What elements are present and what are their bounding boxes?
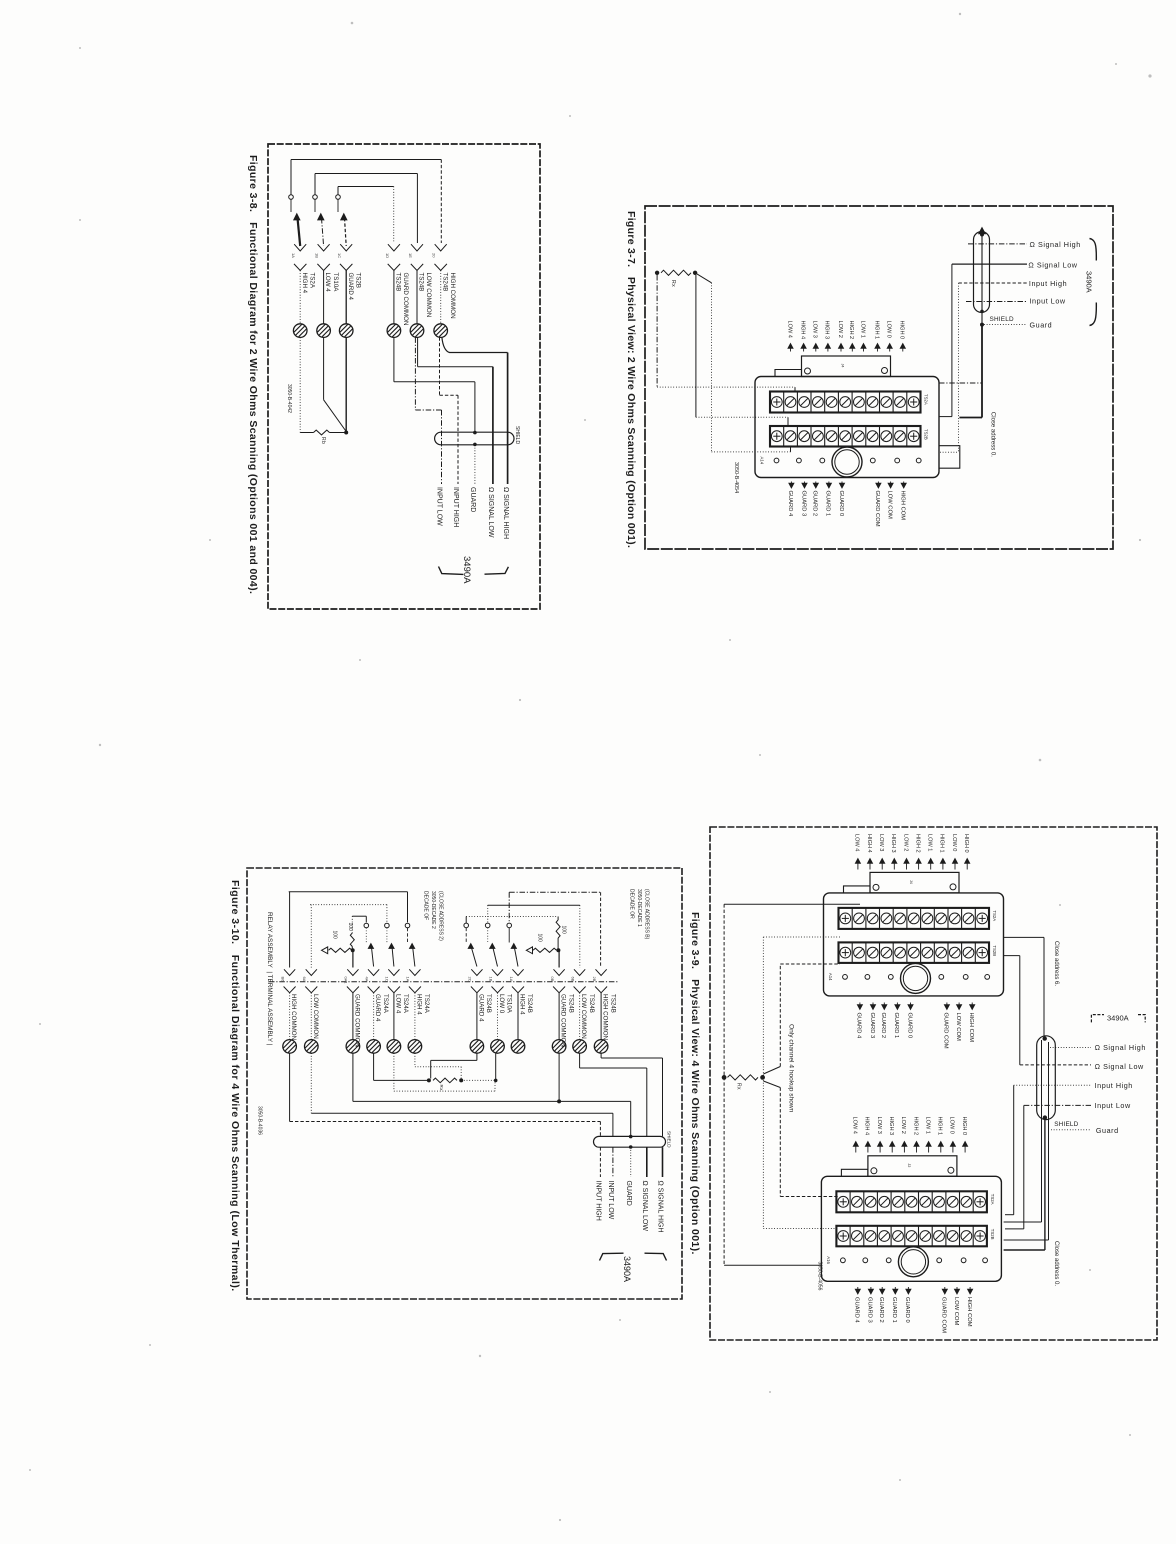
right rail A <box>509 891 600 893</box>
svg-text:(CLOSE ADDRESS B): (CLOSE ADDRESS B) <box>644 889 650 940</box>
wires below oval <box>599 1147 601 1177</box>
svg-text:3050-B-4036: 3050-B-4036 <box>257 1106 263 1135</box>
svg-text:Ω Signal High: Ω Signal High <box>1030 240 1081 249</box>
frame Figure 3-10 <box>247 868 682 1299</box>
svg-text:R x: R x <box>670 280 676 287</box>
cable shield <box>1037 1036 1056 1120</box>
svg-text:1E: 1E <box>408 253 413 258</box>
svg-text:HIGH 4: HIGH 4 <box>866 834 872 853</box>
wire A high common loop <box>723 904 725 1265</box>
svg-text:GUARD COM: GUARD COM <box>943 1013 949 1049</box>
svg-text:GUARD 3: GUARD 3 <box>869 1013 875 1039</box>
relay card A14 <box>755 377 939 478</box>
svg-text:GUARD COMMON: GUARD COMMON <box>402 273 409 326</box>
svg-text:HIGH 4: HIGH 4 <box>416 994 423 1015</box>
wire input low <box>1023 1105 1025 1229</box>
svg-text:TS24B: TS24B <box>485 994 492 1013</box>
frame Figure 3-7 <box>645 206 1113 549</box>
svg-text:HIGH 3: HIGH 3 <box>824 321 830 340</box>
svg-text:HIGH 3: HIGH 3 <box>888 1117 894 1136</box>
wire omega signal low <box>1004 955 1020 957</box>
svg-text:GUARD COMMON: GUARD COMMON <box>560 994 567 1047</box>
svg-text:RELAY ASSEMBLY | TERMINAL ASS: RELAY ASSEMBLY | TERMINAL ASSEMBLY | <box>266 912 273 1046</box>
svg-text:HIGH 3: HIGH 3 <box>890 834 896 853</box>
svg-text:LOW 1: LOW 1 <box>859 321 865 338</box>
svg-text:LOW 1: LOW 1 <box>924 1117 930 1134</box>
svg-text:100: 100 <box>537 934 543 943</box>
scan specks <box>351 22 354 25</box>
svg-text:Close address 6.: Close address 6. <box>1053 941 1059 986</box>
svg-text:SHIELD: SHIELD <box>667 1131 672 1148</box>
wire input low <box>966 301 1027 303</box>
relay blades right group <box>465 928 467 943</box>
svg-text:HIGH COMMON: HIGH COMMON <box>290 994 297 1040</box>
svg-text:HIGH COM: HIGH COM <box>900 491 906 521</box>
svg-text:3490A: 3490A <box>622 1256 632 1282</box>
svg-text:Input Low: Input Low <box>1030 297 1066 306</box>
resistor Rx <box>655 271 659 275</box>
svg-text:TS2B: TS2B <box>990 1229 995 1240</box>
svg-text:TS2B: TS2B <box>992 945 997 956</box>
guard labels below card <box>789 483 794 488</box>
svg-text:GUARD 1: GUARD 1 <box>891 1297 897 1323</box>
3490A brace <box>1090 239 1097 261</box>
wire guard <box>1043 1115 1047 1119</box>
svg-text:HIGH 0: HIGH 0 <box>899 321 905 340</box>
svg-text:J2: J2 <box>907 1163 911 1167</box>
svg-text:GUARD 0: GUARD 0 <box>906 1013 912 1039</box>
svg-text:TS2B: TS2B <box>924 429 929 440</box>
resistor 100 right vertical <box>557 917 559 921</box>
svg-text:SHIELD: SHIELD <box>514 426 520 444</box>
svg-text:GUARD 4: GUARD 4 <box>787 491 793 518</box>
svg-text:Figure 3-9. Physical View: 4: Figure 3-9. Physical View: 4 Wire Ohms S… <box>689 912 701 1255</box>
svg-text:HIGH 4: HIGH 4 <box>519 994 526 1015</box>
svg-text:HIGH 0: HIGH 0 <box>961 1117 967 1136</box>
svg-text:GUARD 2: GUARD 2 <box>878 1297 884 1323</box>
svg-text:GUARD COM: GUARD COM <box>941 1297 947 1333</box>
svg-text:Ω SIGNAL LOW: Ω SIGNAL LOW <box>641 1181 648 1232</box>
svg-text:LOW COM: LOW COM <box>955 1013 961 1042</box>
svg-text:GUARD 4: GUARD 4 <box>478 994 485 1022</box>
svg-text:LOW COMMON: LOW COMMON <box>580 994 587 1039</box>
svg-text:GUARD 4: GUARD 4 <box>347 273 354 301</box>
svg-text:Guard: Guard <box>1030 321 1053 330</box>
svg-text:1C: 1C <box>385 977 390 982</box>
wire Rx left to strip1 <box>656 275 658 387</box>
wire col5 jog <box>393 1053 395 1091</box>
svg-text:LOW 2: LOW 2 <box>837 321 843 338</box>
wire col1 to input high <box>289 1053 291 1121</box>
3490A bracket <box>1091 1015 1104 1023</box>
svg-text:LOW COM: LOW COM <box>886 491 892 520</box>
svg-text:LOW 4: LOW 4 <box>324 273 331 293</box>
relay card A16 <box>821 1176 1001 1281</box>
contact circles right group <box>464 923 469 928</box>
svg-text:TS24B: TS24B <box>441 273 448 292</box>
svg-text:6B: 6B <box>570 977 575 982</box>
svg-text:LOW 0: LOW 0 <box>886 321 892 338</box>
svg-text:A14: A14 <box>828 973 833 981</box>
svg-text:GUARD 4: GUARD 4 <box>374 994 381 1022</box>
svg-text:TS2A: TS2A <box>990 1194 995 1205</box>
svg-text:1B: 1B <box>315 253 320 258</box>
svg-text:3050-B-4054: 3050-B-4054 <box>733 462 739 493</box>
svg-text:100: 100 <box>332 931 338 940</box>
wire omega signal high <box>1004 936 1044 938</box>
svg-text:4A: 4A <box>364 977 369 982</box>
cable shield oval <box>594 1136 666 1147</box>
wire Rx right to strip2 <box>695 275 697 417</box>
svg-text:3490A: 3490A <box>1107 1014 1129 1023</box>
wire col3 to junction <box>345 337 347 432</box>
resistor Rx <box>722 1075 727 1080</box>
wire low common to input low <box>414 337 416 410</box>
svg-text:TS24B: TS24B <box>418 273 425 292</box>
wires chevron to screw <box>299 271 301 324</box>
svg-text:GUARD 4: GUARD 4 <box>856 1013 862 1040</box>
cable shield oval <box>435 432 514 445</box>
svg-text:SHIELD: SHIELD <box>990 316 1014 323</box>
svg-text:100: 100 <box>347 923 353 932</box>
resistor Rx network <box>373 1053 375 1080</box>
wire rail 3 <box>338 186 394 188</box>
svg-text:GUARD 4: GUARD 4 <box>854 1297 860 1324</box>
svg-text:B6: B6 <box>280 977 285 983</box>
svg-text:INPUT HIGH: INPUT HIGH <box>595 1181 602 1221</box>
screw terminal row <box>283 1040 297 1054</box>
bus arrowheads <box>284 969 295 975</box>
svg-text:R x: R x <box>736 1083 742 1090</box>
svg-text:3050-B-4042: 3050-B-4042 <box>286 384 292 413</box>
svg-text:GUARD: GUARD <box>469 487 476 512</box>
relay contact blades K1 K2 K3 <box>290 200 292 213</box>
svg-text:Ω Signal Low: Ω Signal Low <box>1095 1062 1144 1071</box>
svg-text:3050-DECADE 2: 3050-DECADE 2 <box>430 891 436 929</box>
svg-text:LOW 4: LOW 4 <box>395 994 402 1014</box>
svg-text:LOW 4: LOW 4 <box>852 1117 858 1134</box>
svg-text:(CLOSE ADDRESS 2): (CLOSE ADDRESS 2) <box>438 891 444 941</box>
bus chevrons <box>284 987 296 993</box>
svg-text:HIGH COM: HIGH COM <box>966 1297 972 1327</box>
svg-text:2B: 2B <box>592 977 597 982</box>
svg-text:TS2B: TS2B <box>354 273 361 288</box>
svg-text:TS2A: TS2A <box>992 910 997 921</box>
wire C fork pair <box>763 1067 780 1075</box>
bus line <box>269 981 618 983</box>
svg-text:LOW 4: LOW 4 <box>854 834 860 851</box>
svg-text:100: 100 <box>561 926 567 935</box>
svg-text:HIGH COM: HIGH COM <box>968 1013 974 1043</box>
svg-text:6A: 6A <box>302 977 307 982</box>
wire B sense pair <box>762 937 764 1229</box>
svg-text:GUARD 0: GUARD 0 <box>904 1297 910 1323</box>
svg-text:LOW COMMON: LOW COMMON <box>425 273 432 318</box>
wire col7 jog <box>476 1053 478 1060</box>
svg-text:HIGH 4: HIGH 4 <box>301 273 308 294</box>
svg-text:LOW 4: LOW 4 <box>786 321 792 338</box>
svg-text:3050-B-4056: 3050-B-4056 <box>817 1262 823 1291</box>
wire high common to signal high <box>442 337 508 352</box>
svg-text:A14: A14 <box>760 457 765 465</box>
svg-text:0B: 0B <box>550 977 555 982</box>
svg-text:GUARD 0: GUARD 0 <box>838 491 844 517</box>
svg-text:Figure 3-10. Functional Diag: Figure 3-10. Functional Diagram for 4 Wi… <box>229 880 241 1292</box>
svg-text:GUARD COMMON: GUARD COMMON <box>354 994 361 1047</box>
svg-text:Ω Signal Low: Ω Signal Low <box>1028 260 1077 269</box>
screw terminals row <box>293 324 307 338</box>
svg-text:Input High: Input High <box>1029 279 1067 288</box>
wire omega signal low <box>952 263 1027 265</box>
svg-text:HIGH 1: HIGH 1 <box>937 1117 943 1136</box>
wire input high <box>959 282 1028 284</box>
svg-text:DECADE OR: DECADE OR <box>629 889 635 919</box>
svg-text:HIGH 2: HIGH 2 <box>848 321 854 340</box>
wire col1 down <box>299 337 301 432</box>
svg-text:3490A: 3490A <box>1085 271 1094 293</box>
contact circles left group <box>364 923 369 928</box>
svg-text:LOW COMMON: LOW COMMON <box>312 994 319 1039</box>
svg-text:TS24B: TS24B <box>526 994 533 1013</box>
wire low common to signal low <box>417 337 419 366</box>
frame Figure 3-9 <box>710 827 1157 1340</box>
svg-text:HIGH 1: HIGH 1 <box>873 321 879 340</box>
wire omega signal high <box>939 382 982 384</box>
left rail 1 <box>289 891 408 893</box>
svg-text:Close address 0.: Close address 0. <box>1053 1241 1059 1286</box>
svg-text:Close address 0.: Close address 0. <box>990 412 996 457</box>
svg-text:HIGH COMMON: HIGH COMMON <box>449 273 456 319</box>
svg-text:LOW 1: LOW 1 <box>927 834 933 851</box>
wire col3/col10 to guard <box>352 1053 354 1101</box>
svg-text:SHIELD: SHIELD <box>1054 1121 1078 1128</box>
wire col11 to signal low <box>579 1053 581 1068</box>
svg-text:TS24B: TS24B <box>395 273 402 292</box>
svg-text:LOW 3: LOW 3 <box>876 1117 882 1134</box>
left mini rail <box>352 915 366 917</box>
right rail C <box>466 916 558 918</box>
svg-text:TS24B: TS24B <box>588 994 595 1013</box>
svg-text:TS24A: TS24A <box>423 994 430 1014</box>
svg-text:Ω SIGNAL HIGH: Ω SIGNAL HIGH <box>657 1181 664 1233</box>
svg-text:INPUT HIGH: INPUT HIGH <box>452 487 459 527</box>
svg-text:1C: 1C <box>337 253 342 258</box>
relay card A14 <box>824 893 1004 996</box>
resistor 100 left vertical <box>351 916 353 933</box>
resistor 100 right horizontal + arrester <box>526 947 532 954</box>
wire high common to input high <box>439 337 441 395</box>
svg-text:TS10A: TS10A <box>506 994 513 1014</box>
svg-text:HIGH 1: HIGH 1 <box>939 834 945 853</box>
svg-text:1B: 1B <box>488 977 493 982</box>
frame Figure 3-8 <box>268 144 540 609</box>
svg-text:1A: 1A <box>291 253 296 258</box>
contact arrowheads at terminals <box>294 244 306 251</box>
svg-text:3050-DECADE 1: 3050-DECADE 1 <box>636 889 642 927</box>
resistor Rb <box>300 432 313 434</box>
svg-text:GUARD 1: GUARD 1 <box>825 491 831 517</box>
svg-text:Figure 3-8. Functional Diagr: Figure 3-8. Functional Diagram for 2 Wir… <box>247 155 259 594</box>
wire col12 to signal high <box>600 1053 602 1058</box>
right rail B <box>488 904 580 906</box>
cable shield to 3490A <box>974 232 990 313</box>
wire guard <box>981 325 983 418</box>
terminal chevrons TS <box>294 264 306 271</box>
svg-text:HIGH 4: HIGH 4 <box>799 321 805 340</box>
wire Rx right branch 2 <box>695 273 711 283</box>
svg-text:1A: 1A <box>509 977 514 982</box>
svg-text:TS24A: TS24A <box>382 994 389 1014</box>
svg-text:GUARD 3: GUARD 3 <box>800 491 806 517</box>
svg-text:GUARD: GUARD <box>625 1181 632 1206</box>
svg-text:DECADE OF: DECADE OF <box>423 891 429 920</box>
svg-text:LOW 2: LOW 2 <box>902 834 908 851</box>
wire rail 2 <box>315 173 417 175</box>
wire guard common to shield <box>393 337 395 381</box>
svg-text:TS24A: TS24A <box>402 994 409 1014</box>
wire rail 1 <box>291 159 441 161</box>
svg-text:LOW 0: LOW 0 <box>951 834 957 851</box>
svg-text:Ω SIGNAL HIGH: Ω SIGNAL HIGH <box>502 487 509 539</box>
node circles (relay common) <box>289 195 294 200</box>
svg-text:Ω Signal High: Ω Signal High <box>1095 1043 1146 1052</box>
svg-text:GUARD 2: GUARD 2 <box>880 1013 886 1039</box>
wire col2 to input low <box>310 1053 312 1113</box>
svg-text:LOW 3: LOW 3 <box>878 834 884 851</box>
svg-text:Only channel 4 hookup shown: Only channel 4 hookup shown <box>788 1024 795 1113</box>
svg-text:LOW 0: LOW 0 <box>498 994 505 1014</box>
svg-text:INPUT LOW: INPUT LOW <box>436 487 443 526</box>
wire col6 jog <box>414 1053 416 1067</box>
svg-text:1A: 1A <box>406 977 411 982</box>
wire input high <box>1013 1085 1015 1215</box>
svg-text:TS2A: TS2A <box>308 273 315 289</box>
svg-text:J4: J4 <box>909 880 913 884</box>
resistor 100 left horizontal + arrester <box>322 947 328 954</box>
svg-text:3490A: 3490A <box>461 556 472 584</box>
svg-text:TS2A: TS2A <box>924 394 929 405</box>
svg-text:A16: A16 <box>826 1256 831 1264</box>
relay blades left group <box>365 928 367 943</box>
svg-text:20: 20 <box>432 253 437 258</box>
svg-text:0A1: 0A1 <box>344 977 349 985</box>
svg-text:TS10A: TS10A <box>332 273 339 293</box>
guard labels below card A14 <box>859 1003 861 1005</box>
svg-text:HIGH 2: HIGH 2 <box>912 1117 918 1136</box>
svg-text:LOW 2: LOW 2 <box>900 1117 906 1134</box>
guard labels below card A16 <box>857 1287 859 1289</box>
svg-text:HIGH 2: HIGH 2 <box>914 834 920 853</box>
svg-text:Guard: Guard <box>1096 1126 1119 1135</box>
svg-text:HIGH COMMON: HIGH COMMON <box>602 994 609 1040</box>
left rail 2 <box>310 904 387 906</box>
svg-text:Ω SIGNAL LOW: Ω SIGNAL LOW <box>487 487 494 538</box>
wires through shield to card A16 <box>1041 1040 1043 1222</box>
svg-text:Input High: Input High <box>1095 1081 1133 1090</box>
svg-text:Figure 3-7. Physical View: 2: Figure 3-7. Physical View: 2 Wire Ohms S… <box>625 211 637 548</box>
svg-text:2C: 2C <box>468 977 473 982</box>
svg-text:LOW 3: LOW 3 <box>812 321 818 338</box>
3490A bracket <box>600 1253 624 1260</box>
svg-text:GUARD COM: GUARD COM <box>874 491 880 527</box>
svg-text:GUARD 1: GUARD 1 <box>893 1013 899 1039</box>
svg-text:1D: 1D <box>385 253 390 258</box>
svg-text:R b: R b <box>320 437 326 444</box>
svg-text:GUARD 3: GUARD 3 <box>867 1297 873 1323</box>
svg-text:Input Low: Input Low <box>1095 1101 1131 1110</box>
svg-text:LOW 0: LOW 0 <box>949 1117 955 1134</box>
card right extension <box>939 446 960 469</box>
svg-text:R x: R x <box>439 1085 444 1092</box>
wire col2 diagonal <box>323 337 325 399</box>
svg-text:INPUT LOW: INPUT LOW <box>607 1181 614 1220</box>
wires chevron to screws <box>289 993 291 1040</box>
svg-text:HIGH 4: HIGH 4 <box>864 1117 870 1136</box>
svg-text:J4: J4 <box>841 364 845 368</box>
svg-text:HIGH 0: HIGH 0 <box>963 834 969 853</box>
svg-text:LOW COM: LOW COM <box>953 1297 959 1326</box>
3490A bracket <box>439 567 464 575</box>
svg-text:TS24B: TS24B <box>567 994 574 1013</box>
svg-text:TS24B: TS24B <box>609 994 616 1013</box>
svg-text:GUARD 2: GUARD 2 <box>812 491 818 517</box>
